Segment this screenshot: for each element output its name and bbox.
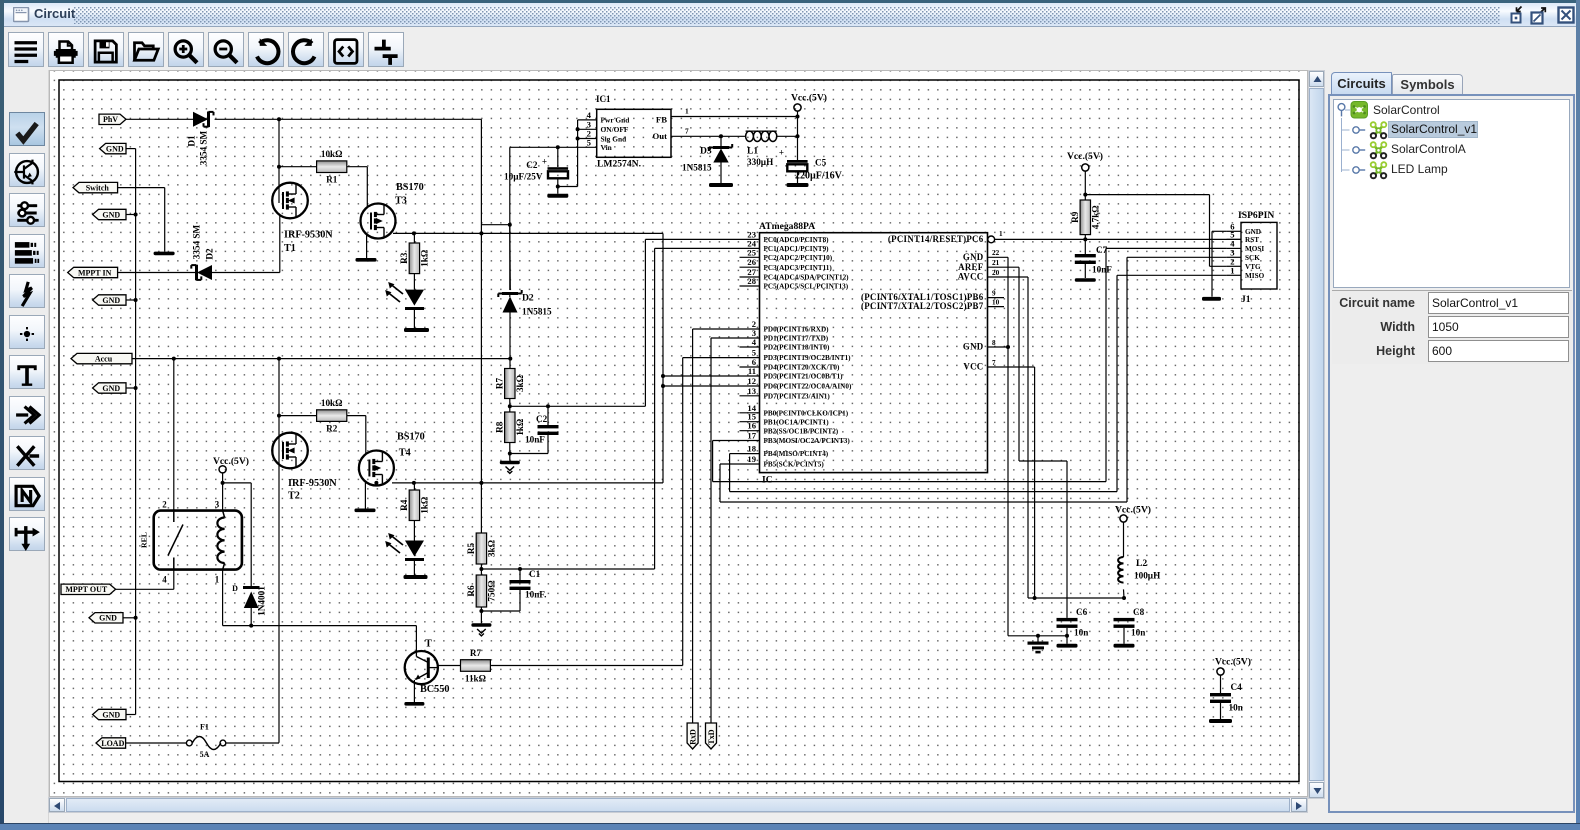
svg-text:GND: GND <box>99 614 117 623</box>
svg-text:R5: R5 <box>466 542 476 554</box>
svg-text:4.7kΩ: 4.7kΩ <box>1091 205 1101 229</box>
svg-text:MOSI: MOSI <box>1245 245 1264 253</box>
svg-text:Switch: Switch <box>86 183 110 192</box>
svg-text:8: 8 <box>992 339 996 347</box>
svg-text:R1: R1 <box>326 175 338 185</box>
svg-text:19: 19 <box>747 454 756 464</box>
svg-text:GND: GND <box>1245 228 1261 236</box>
svg-text:1kΩ: 1kΩ <box>515 419 525 436</box>
svg-text:D2: D2 <box>205 248 215 260</box>
svg-text:MISO: MISO <box>1245 272 1265 280</box>
svg-text:22: 22 <box>992 249 1000 257</box>
svg-text:BS170: BS170 <box>396 182 424 193</box>
svg-text:PC0(ADC0/PCINT8): PC0(ADC0/PCINT8) <box>764 236 830 244</box>
svg-text:PB1(OC1A/PCINT1): PB1(OC1A/PCINT1) <box>764 418 830 426</box>
svg-text:MPPT IN: MPPT IN <box>78 268 112 277</box>
svg-text:10: 10 <box>992 298 1000 306</box>
svg-text:VTG: VTG <box>1245 263 1261 271</box>
svg-text:PD4(PCINT20/XCK/T0): PD4(PCINT20/XCK/T0) <box>764 364 840 372</box>
svg-text:LM2574N.: LM2574N. <box>597 159 641 170</box>
svg-text:PhV: PhV <box>103 115 118 124</box>
svg-text:T: T <box>425 639 432 650</box>
svg-text:PC5(ADC5/SCL/PCINT13): PC5(ADC5/SCL/PCINT13) <box>764 283 849 291</box>
svg-text:LOAD: LOAD <box>101 739 124 748</box>
svg-text:AREF: AREF <box>958 262 983 272</box>
svg-text:D: D <box>232 584 238 593</box>
svg-text:1N4001: 1N4001 <box>257 586 267 616</box>
svg-text:Vcc.(5V): Vcc.(5V) <box>1067 151 1103 162</box>
svg-text:1kΩ: 1kΩ <box>420 497 430 514</box>
svg-text:C1: C1 <box>529 569 541 579</box>
svg-text:D3: D3 <box>700 146 712 157</box>
svg-text:10n: 10n <box>1074 627 1088 637</box>
svg-text:ISP6PIN: ISP6PIN <box>1238 210 1274 221</box>
svg-text:+: + <box>779 148 784 158</box>
svg-text:F1: F1 <box>200 723 209 732</box>
svg-text:12: 12 <box>747 376 756 386</box>
svg-text:PB4(MISO/PCINT4): PB4(MISO/PCINT4) <box>764 450 829 458</box>
svg-text:PC1(ADC1/PCINT9): PC1(ADC1/PCINT9) <box>764 245 830 253</box>
svg-text:RST: RST <box>1245 236 1259 244</box>
svg-text:10µF/25V: 10µF/25V <box>504 172 543 182</box>
svg-text:GND: GND <box>963 342 984 352</box>
svg-text:IRF-9530N: IRF-9530N <box>288 478 337 489</box>
svg-text:PD3(PCINT19/OC2B/INT1): PD3(PCINT19/OC2B/INT1) <box>764 354 852 362</box>
svg-text:T2: T2 <box>288 491 300 502</box>
svg-text:ATmega88PA: ATmega88PA <box>759 221 815 232</box>
svg-text:T1: T1 <box>284 243 296 254</box>
svg-text:GND: GND <box>106 144 124 153</box>
svg-text:Sig Gnd: Sig Gnd <box>601 134 628 143</box>
svg-text:C2: C2 <box>536 414 548 424</box>
svg-text:D2: D2 <box>522 293 534 304</box>
svg-text:Vcc.(5V): Vcc.(5V) <box>213 456 249 467</box>
svg-text:BS170: BS170 <box>397 432 425 443</box>
svg-text:PC2(ADC2/PCINT10): PC2(ADC2/PCINT10) <box>764 254 833 262</box>
svg-text:5A: 5A <box>200 750 210 759</box>
svg-text:10nF: 10nF <box>525 435 545 445</box>
svg-text:T3: T3 <box>395 196 407 207</box>
svg-text:FB: FB <box>656 115 667 125</box>
svg-text:1N5815: 1N5815 <box>522 307 552 317</box>
svg-text:PD1(PCINT17/TXD): PD1(PCINT17/TXD) <box>764 335 829 343</box>
svg-text:21: 21 <box>992 259 1000 267</box>
svg-text:1kΩ: 1kΩ <box>420 250 430 267</box>
svg-text:IC1: IC1 <box>596 94 611 104</box>
svg-text:D1: D1 <box>187 135 197 147</box>
svg-text:1N5815: 1N5815 <box>682 163 712 173</box>
svg-text:10nF: 10nF <box>1092 265 1112 275</box>
svg-text:RxD: RxD <box>688 729 697 745</box>
svg-text:1: 1 <box>1230 266 1234 276</box>
svg-text:9: 9 <box>992 289 996 297</box>
svg-text:GND: GND <box>102 296 120 305</box>
svg-text:10n: 10n <box>1131 627 1145 637</box>
svg-text:28: 28 <box>747 276 756 286</box>
svg-text:7: 7 <box>685 126 689 135</box>
svg-text:R4: R4 <box>399 499 409 511</box>
svg-text:17: 17 <box>747 431 756 441</box>
svg-text:T4: T4 <box>399 448 411 459</box>
svg-text:(PCINT14/RESET)PC6: (PCINT14/RESET)PC6 <box>888 234 984 244</box>
svg-text:L2: L2 <box>1136 558 1147 569</box>
svg-text:2: 2 <box>162 500 167 510</box>
svg-text:Accu: Accu <box>95 354 113 363</box>
svg-text:PC4(ADC4/SDA/PCINT12): PC4(ADC4/SDA/PCINT12) <box>764 274 850 282</box>
svg-text:C6: C6 <box>1076 607 1088 617</box>
svg-text:GND: GND <box>102 210 120 219</box>
svg-text:7: 7 <box>992 359 996 367</box>
svg-text:C4: C4 <box>1231 682 1243 692</box>
svg-text:16: 16 <box>747 421 756 431</box>
svg-text:GND: GND <box>102 710 120 719</box>
svg-text:C8: C8 <box>1133 607 1145 617</box>
svg-text:11: 11 <box>748 366 756 376</box>
svg-text:4: 4 <box>162 575 167 585</box>
svg-text:PD5(PCINT21/OC0B/T1): PD5(PCINT21/OC0B/T1) <box>764 373 844 381</box>
svg-text:TxD: TxD <box>707 729 716 744</box>
svg-text:BC550: BC550 <box>420 684 449 695</box>
svg-text:3354 SM: 3354 SM <box>192 224 202 259</box>
svg-text:+: + <box>542 157 547 167</box>
svg-text:R7: R7 <box>470 648 482 658</box>
svg-text:R2: R2 <box>326 424 338 434</box>
svg-text:AVCC: AVCC <box>958 272 984 282</box>
svg-text:Pwr Gnd: Pwr Gnd <box>601 116 631 125</box>
svg-text:Vin: Vin <box>601 143 612 152</box>
svg-text:GND: GND <box>963 252 984 262</box>
svg-text:20: 20 <box>992 269 1000 277</box>
svg-text:MPPT OUT: MPPT OUT <box>65 585 108 594</box>
svg-text:R3: R3 <box>399 252 409 264</box>
svg-text:PC3(ADC3/PCINT11): PC3(ADC3/PCINT11) <box>764 264 833 272</box>
svg-text:Vcc.(5V): Vcc.(5V) <box>1215 657 1251 668</box>
svg-text:PB5(SCK/PCINT5): PB5(SCK/PCINT5) <box>764 461 825 469</box>
svg-text:10nF.: 10nF. <box>525 590 546 600</box>
svg-text:PB0(PCINT0/CLKO/ICP1): PB0(PCINT0/CLKO/ICP1) <box>764 409 849 417</box>
svg-text:330µH: 330µH <box>747 157 773 167</box>
svg-text:IC: IC <box>762 475 773 486</box>
svg-text:REL: REL <box>140 532 149 548</box>
svg-text:3354 SM: 3354 SM <box>199 130 209 165</box>
svg-text:100µH: 100µH <box>1134 571 1160 581</box>
svg-text:J1: J1 <box>1241 294 1251 305</box>
svg-text:1: 1 <box>215 575 219 585</box>
svg-text:C5: C5 <box>815 158 827 168</box>
svg-text:26: 26 <box>747 257 756 267</box>
svg-text:C2: C2 <box>526 160 538 170</box>
svg-text:(PCINT7/XTAL2/TOSC2)PB7: (PCINT7/XTAL2/TOSC2)PB7 <box>861 301 984 311</box>
svg-text:PD0(PCINT16/RXD): PD0(PCINT16/RXD) <box>764 326 830 334</box>
svg-text:1: 1 <box>999 230 1003 238</box>
svg-text:R9: R9 <box>1070 211 1080 223</box>
svg-text:10n: 10n <box>1229 703 1243 713</box>
svg-text:IRF-9530N: IRF-9530N <box>284 230 333 241</box>
svg-text:PB2(SS/OC1B/PCINT2): PB2(SS/OC1B/PCINT2) <box>764 427 839 435</box>
svg-text:Out: Out <box>653 131 668 141</box>
svg-text:C7: C7 <box>1096 245 1108 255</box>
svg-text:1: 1 <box>685 107 689 116</box>
svg-text:13: 13 <box>747 386 756 396</box>
svg-text:ON/OFF: ON/OFF <box>601 125 629 134</box>
svg-text:3: 3 <box>215 500 220 510</box>
svg-text:10kΩ: 10kΩ <box>321 149 343 159</box>
svg-text:25: 25 <box>747 247 756 257</box>
svg-text:SCK: SCK <box>1245 254 1260 262</box>
svg-text:18: 18 <box>747 444 756 454</box>
svg-text:R7: R7 <box>494 377 504 389</box>
svg-text:Vcc.(5V): Vcc.(5V) <box>791 93 827 104</box>
svg-text:3kΩ: 3kΩ <box>487 540 497 557</box>
svg-text:VCC: VCC <box>963 362 983 372</box>
svg-text:220µF/16V: 220µF/16V <box>795 171 843 182</box>
svg-text:750Ω: 750Ω <box>487 580 497 601</box>
svg-text:L1: L1 <box>747 146 758 157</box>
svg-text:11kΩ: 11kΩ <box>465 674 486 684</box>
svg-text:R8: R8 <box>494 421 504 433</box>
svg-text:4: 4 <box>752 337 757 347</box>
svg-text:PB3(MOSI/OC2A/PCINT3): PB3(MOSI/OC2A/PCINT3) <box>764 437 851 445</box>
svg-text:PD6(PCINT22/OC0A/AIN0): PD6(PCINT22/OC0A/AIN0) <box>764 383 852 391</box>
svg-text:R6: R6 <box>466 585 476 597</box>
svg-text:PD2(PCINT18/INT0): PD2(PCINT18/INT0) <box>764 344 830 352</box>
svg-text:10kΩ: 10kΩ <box>321 398 343 408</box>
svg-text:3kΩ: 3kΩ <box>515 375 525 392</box>
svg-text:Vcc.(5V): Vcc.(5V) <box>1115 505 1151 516</box>
svg-text:PD7(PCINT23/AIN1): PD7(PCINT23/AIN1) <box>764 392 831 400</box>
svg-text:GND: GND <box>102 384 120 393</box>
